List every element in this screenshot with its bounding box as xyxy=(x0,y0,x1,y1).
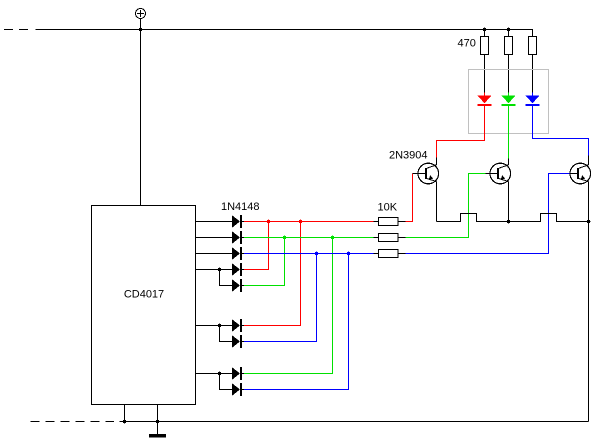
ground rail xyxy=(120,421,589,423)
ground xyxy=(149,422,166,438)
junction red row1b xyxy=(299,220,303,224)
svg-text:2N3904: 2N3904 xyxy=(389,150,428,162)
wire green LED cathode to Q2 collector xyxy=(508,106,510,159)
wire pin stub row1 xyxy=(196,221,232,223)
diode D9 1N4148 xyxy=(232,383,245,396)
junction blue row3b xyxy=(347,252,351,256)
transistor Q1 2N3904 xyxy=(413,158,439,222)
svg-text:CD4017: CD4017 xyxy=(124,289,164,301)
resistor R6 10K xyxy=(374,250,406,258)
LED red D10 xyxy=(478,93,492,107)
wire right side to ground rail xyxy=(588,222,590,422)
resistor R4 10K xyxy=(374,218,406,226)
LED blue D12 xyxy=(526,93,540,107)
wire pin stub row4 xyxy=(196,269,232,271)
junction Q3 emitter xyxy=(587,220,591,224)
junction Q2 emitter xyxy=(507,220,511,224)
wire CD4017 Vss stub xyxy=(124,405,126,422)
wire pin stub row2 xyxy=(196,237,232,239)
junction red row1 xyxy=(267,220,271,224)
junction pin4 branch xyxy=(218,268,222,272)
wire red net row4 xyxy=(244,222,269,270)
wire emitter bus with hops xyxy=(437,214,589,222)
wire CD4017 gnd stub xyxy=(157,405,159,422)
wire green net row5 xyxy=(244,238,285,286)
diode D2 1N4148 xyxy=(232,231,245,244)
wire blue net rowD xyxy=(244,254,349,390)
top power rail xyxy=(36,30,533,37)
wire blue net rowB xyxy=(244,254,317,342)
diode D8 1N4148 xyxy=(232,367,245,380)
junction pinA branch xyxy=(218,324,222,328)
wire green net row2 xyxy=(244,237,374,239)
diode D5 1N4148 xyxy=(232,279,245,292)
wire red net row1 xyxy=(244,221,374,223)
wire branch to rowB xyxy=(220,326,232,342)
resistor R2 470 xyxy=(504,30,512,93)
ground rail dashed continuation xyxy=(31,421,115,423)
svg-text:10K: 10K xyxy=(378,202,398,214)
wire branch to rowD xyxy=(220,374,232,390)
junction green row2b xyxy=(331,236,335,240)
wire red LED cathode to Q1 collector xyxy=(437,106,485,158)
wire red base feed Q1 xyxy=(406,174,413,222)
wire green base feed Q2 xyxy=(406,174,486,238)
wire red net rowA xyxy=(244,222,301,326)
op IC U1 CD4017 xyxy=(92,206,196,405)
diode D3 1N4148 xyxy=(232,247,245,260)
LED green D11 xyxy=(502,93,516,107)
resistor R3 470 xyxy=(528,37,536,93)
junction Vdd rail xyxy=(139,28,143,32)
resistor R5 10K xyxy=(374,234,406,242)
diode D7 1N4148 xyxy=(232,335,245,348)
junction blue row3 xyxy=(315,252,319,256)
resistor R1 470 xyxy=(480,30,488,93)
wire blue LED cathode to Q3 collector xyxy=(533,106,589,156)
transistor Q3 2N3904 xyxy=(570,156,591,222)
wire branch to row5 xyxy=(220,270,232,286)
LED module box xyxy=(469,70,549,134)
wire green net rowC xyxy=(244,238,333,374)
junction green row2 xyxy=(283,236,287,240)
wire blue base feed Q3 xyxy=(406,174,570,254)
junction rail R1 xyxy=(483,28,487,32)
diode D4 1N4148 xyxy=(232,263,245,276)
diode D1 1N4148 xyxy=(232,215,245,228)
wire Vdd feed to CD4017 xyxy=(140,30,142,206)
svg-text:1N4148: 1N4148 xyxy=(221,201,260,213)
wire pin stub rowA xyxy=(196,325,232,327)
wire pin stub rowC xyxy=(196,373,232,375)
svg-text:470: 470 xyxy=(458,38,476,50)
top power rail dashed continuation xyxy=(4,29,28,31)
junction gnd rail xyxy=(156,420,160,424)
junction Vss rail xyxy=(123,420,127,424)
junction pinC branch xyxy=(218,372,222,376)
transistor Q2 2N3904 xyxy=(486,159,511,222)
junction rail R2 xyxy=(507,28,511,32)
diode D6 1N4148 xyxy=(232,319,245,332)
wire blue net row3 xyxy=(244,253,374,255)
wire pin stub row3 xyxy=(196,253,232,255)
power supply symbol V+ xyxy=(136,9,146,30)
